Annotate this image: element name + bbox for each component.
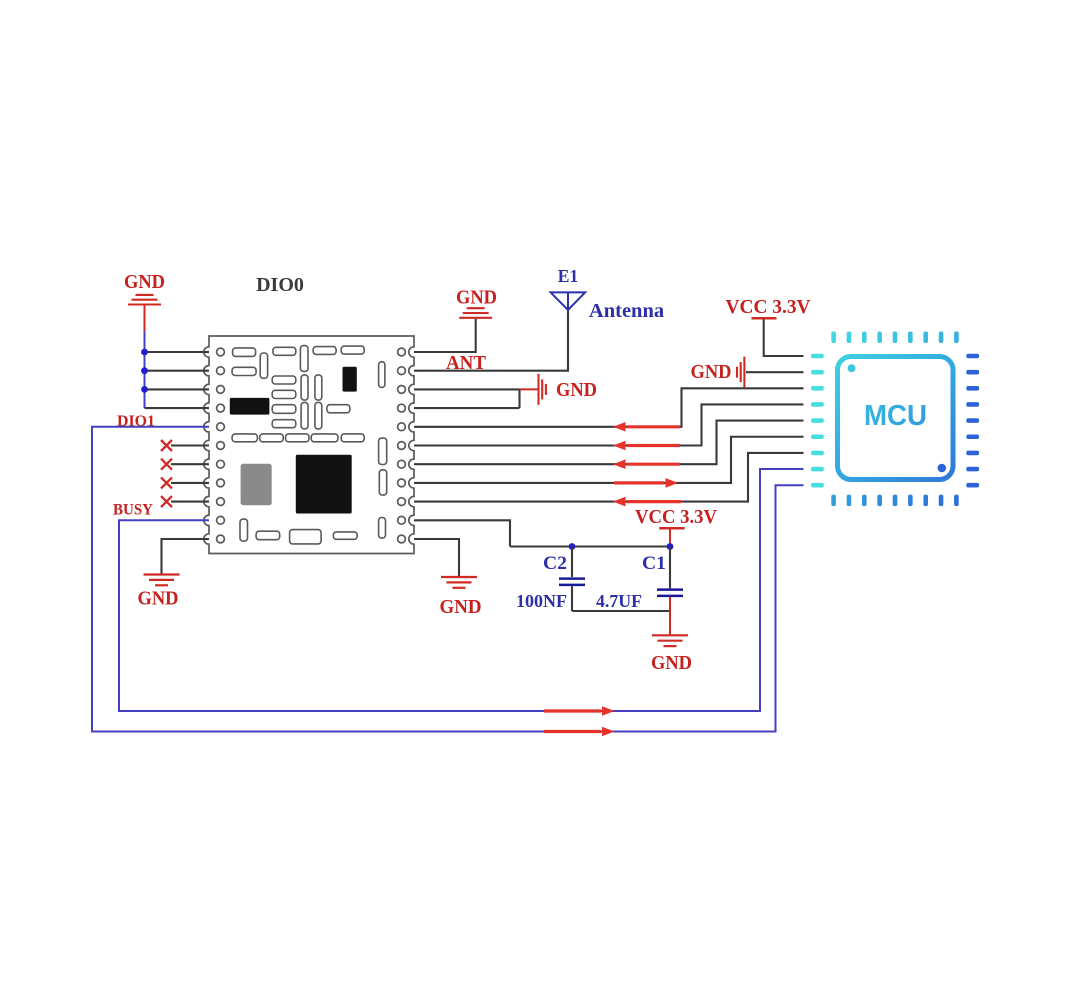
svg-text:VCC 3.3V: VCC 3.3V (635, 506, 717, 528)
ground symbol (below C1) (652, 635, 688, 646)
svg-text:C2: C2 (543, 553, 567, 574)
capacitor C2 top lead (571, 547, 573, 578)
wire signal module pin5-right to MCU pin L3 (414, 388, 804, 427)
svg-text:Antenna: Antenna (589, 300, 664, 322)
ground symbol (bottom-right of module) (441, 577, 477, 588)
label GND (below C1) (651, 652, 692, 674)
label GND (top-left) (124, 271, 165, 293)
svg-text:BUSY: BUSY (113, 502, 153, 519)
wire blue vertical bus from top-left ground to pin 4 row (144, 331, 146, 408)
label ANT (446, 352, 486, 374)
svg-text:VCC 3.3V: VCC 3.3V (726, 296, 811, 318)
module U1 internal SMD pads (232, 346, 387, 544)
MCU pin-1 dot (848, 364, 856, 372)
wire module pin11-right to ground (414, 539, 459, 576)
wire signal module pin6-right to MCU pin L4 (414, 404, 804, 445)
capacitor C1 plates (657, 590, 683, 596)
wire DIO1 net (blue): module pin5-left, down, across bottom, up to MCU pin L9 (92, 427, 804, 732)
svg-text:C1: C1 (642, 553, 666, 574)
ground symbol (top-left, inverted) (128, 295, 161, 305)
module U1 black IC (small, top) (343, 367, 357, 392)
MCU U2 body (838, 357, 954, 480)
svg-text:4.7UF: 4.7UF (596, 591, 642, 611)
label GND (mid rotated ground) (556, 379, 597, 401)
power symbol VCC bar (top) (752, 317, 777, 320)
module U1 left pin pads (pins 1-11) (217, 348, 225, 543)
junction dot pin3 bus (141, 386, 148, 393)
junction dot C2 top (569, 543, 576, 550)
label BUSY (113, 502, 153, 519)
label GND (bottom-right of module) (440, 596, 482, 618)
label VCC 3.3V (top) (726, 296, 811, 318)
junction dot pin2 bus (141, 367, 148, 374)
module U1 big black IC (RF chip) (296, 455, 352, 514)
arrow on SCK wire (points left) (613, 422, 680, 432)
wire module pin1-right up to ground (414, 319, 476, 352)
svg-text:GND: GND (138, 588, 179, 610)
label DIO0 (256, 274, 304, 296)
arrow on BUSY bottom wire (points right) (544, 706, 615, 716)
label Antenna (589, 300, 664, 322)
label C1 (642, 553, 666, 574)
wire module pin4-right (414, 407, 520, 409)
module U1 LoRa RF module footprint outline (204, 336, 414, 554)
wire signal module pin7-right to MCU pin L5 (414, 421, 804, 465)
wire ground to MCU pin L2 (746, 371, 804, 373)
module U1 gray crystal component (241, 464, 272, 505)
arrow on NRESET wire (points left) (613, 497, 681, 507)
ground symbol (rotated, mid) (539, 374, 546, 405)
svg-text:GND: GND (440, 596, 482, 618)
wire vertical joining pin3/pin4 right (518, 389, 520, 408)
MCU corner dot (938, 464, 947, 473)
arrow on MOSI wire (points left) (613, 459, 680, 469)
label GND (bottom-left) (138, 588, 179, 610)
ground symbol (bottom-left) (144, 575, 180, 586)
svg-text:GND: GND (556, 379, 597, 401)
label GND (top of module) (456, 287, 497, 309)
power symbol VCC bar (caps) (659, 527, 684, 530)
wire ANT: module pin2-right to antenna (414, 310, 568, 371)
wire module pin3-right (414, 388, 520, 390)
junction dot pin1 bus (141, 349, 148, 356)
label C2 (543, 553, 567, 574)
no-connect X marks on pins 6-9 left (161, 440, 172, 507)
label 100NF (516, 591, 567, 611)
svg-text:GND: GND (456, 287, 497, 309)
wire red C1 bottom lead to ground (669, 597, 671, 635)
ground symbol (top of module, inverted) (459, 308, 492, 318)
capacitor C1 top lead (669, 547, 671, 589)
svg-text:E1: E1 (558, 266, 578, 286)
MCU bottom pin dashes (831, 495, 958, 507)
module U1 right pin pads (pins 12-22) (398, 348, 406, 543)
wire module pin4-left to bus (145, 407, 210, 409)
wire module pin11-left to ground (162, 539, 210, 574)
arrow on MISO wire (points left) (613, 441, 680, 451)
arrow on NSS wire (points right) (614, 478, 678, 488)
antenna E1 symbol (551, 292, 586, 310)
wire module pin2-left to bus (145, 370, 210, 372)
ground symbol (rotated, at MCU) (737, 357, 744, 388)
label VCC 3.3V (caps) (635, 506, 717, 528)
capacitor C2 bottom lead (571, 586, 573, 611)
MCU label (864, 400, 927, 432)
label GND (at MCU) (691, 361, 732, 383)
svg-text:GND: GND (691, 361, 732, 383)
label E1 (558, 266, 578, 286)
svg-text:100NF: 100NF (516, 591, 567, 611)
wire red stem from top-left ground (144, 305, 146, 332)
MCU top pin dashes (831, 332, 958, 344)
wire module pin3-left to bus (145, 388, 210, 390)
wire cap bottom rail (572, 610, 670, 612)
label 4.7UF (596, 591, 642, 611)
wire module pin10-right down to cap rail (414, 520, 510, 546)
arrow on DIO1 bottom wire (points right) (544, 727, 615, 737)
wire cap top rail (510, 545, 670, 547)
module U1 black component (horizontal) (230, 398, 270, 415)
MCU left pin dashes (811, 354, 824, 488)
svg-text:MCU: MCU (864, 400, 927, 432)
wire VCC to MCU pin L1 (764, 320, 804, 357)
label DIO1 (117, 413, 155, 430)
svg-text:DIO0: DIO0 (256, 274, 304, 296)
capacitor C2 plates (559, 579, 585, 585)
junction dot C1 top (667, 543, 674, 550)
wire red stub to rotated ground (520, 388, 538, 390)
wire red VCC stem to rail (669, 528, 671, 546)
wires unconnected stub pins 6-9 left (171, 446, 209, 502)
svg-text:GND: GND (651, 652, 692, 674)
wire BUSY net (blue): module pin10-left, down, across bottom, up to MCU pin L8 (119, 469, 804, 711)
wire module pin1-left to bus (145, 351, 210, 353)
wire signal module pin9-right to MCU pin L7 (414, 453, 804, 502)
MCU right pin dashes (966, 354, 979, 488)
svg-text:GND: GND (124, 271, 165, 293)
wire signal module pin8-right to MCU pin L6 (414, 437, 804, 483)
